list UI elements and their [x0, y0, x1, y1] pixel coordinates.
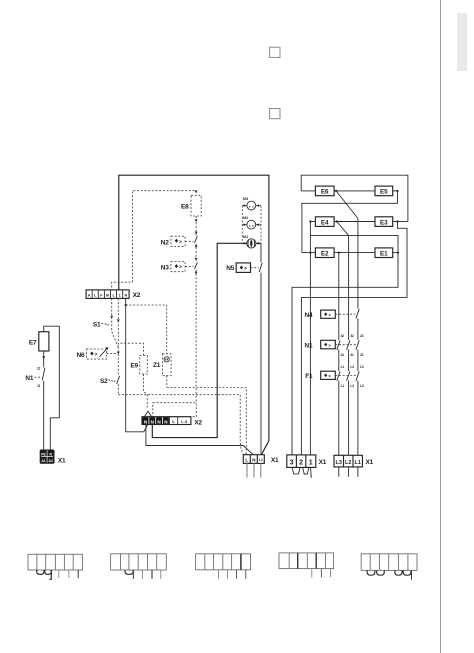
- jumper link group 2: [125, 570, 133, 574]
- svg-text:N5: N5: [226, 265, 234, 272]
- heater E3: [375, 217, 393, 227]
- pin under 1: [310, 467, 313, 477]
- arrow below N3 contact: [195, 272, 198, 275]
- wire E4 crossbar: [292, 235, 398, 455]
- heater E6: [315, 186, 334, 196]
- dashed enclosure over X2 lower: [153, 403, 197, 417]
- connector X1 (3-2-1): [287, 455, 316, 468]
- wire E7 top loop: [44, 326, 60, 449]
- sensor E8: [191, 195, 201, 216]
- pins under L3-L2-L1: [339, 467, 358, 477]
- arrow below N2 contact: [195, 245, 198, 248]
- dashed stubs M2: [242, 224, 261, 226]
- dashed link F1 to contacts: [335, 375, 356, 377]
- node tap: [125, 304, 127, 306]
- plug connector X1 (left): [40, 450, 55, 464]
- svg-text:L3: L3: [360, 365, 364, 369]
- svg-text:>: >: [244, 266, 247, 272]
- svg-text:>: >: [95, 352, 98, 358]
- heater E7: [39, 332, 49, 351]
- flow arrow: [42, 356, 45, 359]
- svg-text:42: 42: [341, 334, 345, 338]
- motor M3: [247, 201, 256, 210]
- svg-text:E9: E9: [130, 363, 138, 370]
- wire E2 to E1: [334, 252, 375, 254]
- checkbox placeholder 1: [270, 47, 280, 57]
- arrow into E8: [195, 190, 198, 193]
- wire M1 right drop to X1: [260, 243, 262, 454]
- arrow N6 to chain: [100, 349, 108, 357]
- thermostat N5: [236, 263, 250, 273]
- svg-text:L2: L2: [345, 460, 351, 466]
- svg-text:N2: N2: [161, 239, 169, 246]
- svg-text:L3: L3: [360, 384, 364, 388]
- svg-text:X1: X1: [366, 459, 374, 466]
- svg-text:22: 22: [360, 334, 364, 338]
- dashed link N4 to contact: [335, 313, 355, 315]
- dashed link N3: [185, 265, 193, 267]
- page edge vertical rule: [440, 0, 442, 653]
- svg-text:L-S: L-S: [181, 420, 187, 424]
- dashed link N5 to contact: [251, 267, 259, 269]
- contact blade N2: [195, 236, 198, 243]
- arrow above N2 contact: [195, 232, 198, 235]
- plug link under 2: [303, 467, 309, 474]
- dashed bus left of motors: [241, 206, 243, 244]
- wire E4 to E3: [334, 221, 375, 223]
- svg-text:L1: L1: [341, 384, 345, 388]
- dashed control enclosure: [112, 191, 195, 290]
- wire E6 left feed: [301, 190, 315, 192]
- svg-text:M3: M3: [243, 197, 248, 201]
- heater E4: [315, 217, 334, 227]
- wire E5 return run: [302, 191, 398, 253]
- checkbox placeholder 2: [270, 109, 280, 119]
- wire E6 to E5: [334, 190, 375, 192]
- svg-text:A: A: [88, 293, 91, 297]
- svg-text:21: 21: [360, 353, 364, 357]
- arrow on S1 branch: [110, 316, 113, 319]
- svg-text:X2: X2: [133, 292, 141, 299]
- terminal arrows M1: [244, 242, 260, 245]
- scrollbar thumb: [457, 13, 467, 71]
- svg-text:L1: L1: [341, 365, 345, 369]
- svg-text:S1: S1: [93, 321, 101, 328]
- thermostat N2: [171, 236, 185, 246]
- heater E1: [375, 248, 393, 258]
- caret into X2 lower cell1: [144, 411, 151, 416]
- Z1 bottom lead: [166, 376, 168, 388]
- plug link under 3: [292, 467, 300, 474]
- node E3 output: [396, 220, 398, 222]
- arrow above N3 contact: [195, 258, 198, 261]
- node E4 left: [309, 220, 311, 222]
- MAIN CONTROL BOX OUTLINE (solid enclosure, left): [119, 175, 269, 454]
- arrow below N6 junction: [117, 352, 120, 355]
- terminal block group 4: [279, 553, 334, 569]
- svg-text:L: L: [172, 419, 175, 424]
- wire diagonal E6 tap to phase L1 riser: [336, 191, 358, 219]
- overload relay F1: [321, 371, 336, 379]
- svg-text:>: >: [328, 343, 331, 348]
- svg-text:M1: M1: [243, 235, 248, 239]
- svg-text:E2: E2: [321, 250, 329, 257]
- node E2 output tap: [338, 252, 340, 254]
- svg-text:1: 1: [309, 460, 313, 467]
- svg-text:N4: N4: [304, 312, 312, 319]
- contact blade N3: [195, 262, 198, 269]
- terminal strip X2 upper: [86, 290, 129, 299]
- wire E7 bottom: [43, 351, 45, 450]
- dashed stubs M3: [242, 205, 261, 207]
- svg-text:41: 41: [341, 353, 345, 357]
- wire E2 left feed: [302, 252, 316, 254]
- svg-text:11: 11: [37, 384, 40, 388]
- lead wire group 2: [132, 570, 134, 579]
- svg-text:L1: L1: [355, 460, 361, 466]
- svg-text:N3: N3: [161, 265, 169, 272]
- connector X1 (L3-L2-L1): [334, 455, 362, 467]
- svg-text:N: N: [125, 293, 128, 297]
- switch S2 blade: [117, 376, 120, 384]
- heater loop top edge: [301, 175, 408, 221]
- svg-text:X1: X1: [271, 457, 279, 464]
- svg-text:>: >: [328, 313, 331, 318]
- terminal block group 2: [111, 554, 167, 570]
- svg-text:A2: A2: [49, 459, 53, 463]
- svg-text:>: >: [179, 239, 182, 245]
- svg-text:E3: E3: [380, 219, 388, 226]
- svg-text:X2: X2: [194, 419, 202, 426]
- fan motor M1: [247, 239, 256, 248]
- svg-text:L1: L1: [259, 458, 263, 462]
- wire X2 lower cell1 to X1-L: [146, 425, 253, 455]
- dashed sensor line (E8 down through N2/N3): [195, 216, 197, 403]
- E9 bottom lead: [144, 374, 148, 410]
- svg-text:N1: N1: [304, 342, 312, 349]
- svg-text:>: >: [328, 374, 331, 379]
- wire diagonal E4 tap to phase L2 riser: [337, 222, 349, 236]
- switch S2 callout: [109, 380, 116, 381]
- wire E4 left feed: [310, 221, 315, 223]
- svg-text:E5: E5: [380, 189, 388, 196]
- svg-text:PE: PE: [41, 452, 46, 456]
- wire phase riser from E2 tap (goes to L3): [338, 253, 340, 456]
- svg-text:>: >: [179, 265, 182, 271]
- svg-text:E6: E6: [321, 189, 329, 196]
- dashed link N2: [185, 240, 193, 242]
- heater E5: [375, 186, 393, 196]
- pins group 4: [312, 569, 331, 578]
- contact blades F1 row: [337, 371, 359, 381]
- wire E3 jog to lower loop: [301, 222, 407, 455]
- node E2 left: [309, 252, 311, 254]
- wire E4/E2 left riser to terminal 1: [309, 222, 311, 455]
- arrow on main chain upper: [117, 319, 120, 322]
- svg-text:E1: E1: [380, 250, 388, 257]
- wire phase riser from E6 tap (goes to L1): [357, 218, 359, 455]
- component Z1: [162, 354, 171, 376]
- wire E1 right: [393, 252, 398, 254]
- svg-text:1: 1: [119, 293, 121, 297]
- contact blade N4 on L1 riser: [356, 309, 359, 319]
- E9 top lead: [118, 343, 143, 355]
- dashed link N1 to contacts: [335, 344, 356, 346]
- pins group 3: [219, 570, 228, 579]
- svg-text:N1: N1: [25, 375, 33, 382]
- svg-text:N: N: [252, 457, 256, 463]
- svg-text:Z1: Z1: [153, 362, 161, 369]
- motor M2: [247, 220, 256, 229]
- wire X2-N drop (from upper strip to lower cell1): [126, 298, 148, 431]
- node E4 output tap: [336, 220, 338, 222]
- svg-text:X1: X1: [58, 457, 66, 464]
- dashed tap from X2-N line: [126, 305, 167, 354]
- pins group 2: [142, 570, 160, 579]
- terminal block group 5: [361, 554, 417, 571]
- svg-text:M2: M2: [243, 216, 248, 220]
- switch S1 callout: [102, 324, 110, 325]
- terminal arrows M3: [244, 204, 260, 207]
- dashed link N1 left: [34, 376, 41, 378]
- dashed drop from X2 cell5: [112, 298, 119, 347]
- svg-text:S2: S2: [100, 378, 108, 385]
- svg-text:31: 31: [350, 353, 354, 357]
- dashed drop from X2 cell6: [117, 298, 119, 394]
- dashed bus right of motors: [260, 206, 262, 244]
- wire phase riser from E4 tap (goes to L2): [348, 235, 350, 455]
- svg-text:E8: E8: [181, 203, 189, 210]
- node E6 output tap: [335, 190, 337, 192]
- svg-text:E4: E4: [321, 219, 329, 226]
- svg-text:L2: L2: [350, 365, 354, 369]
- wire E3 right: [393, 221, 408, 223]
- pins group 1: [59, 570, 69, 578]
- svg-text:F1: F1: [305, 373, 313, 380]
- svg-text:L3: L3: [336, 460, 342, 466]
- pins under L-N-L1: [247, 463, 261, 477]
- svg-text:12: 12: [37, 366, 41, 370]
- lead wire group 5: [411, 570, 413, 579]
- svg-text:M: M: [106, 293, 109, 297]
- svg-text:E7: E7: [29, 339, 37, 346]
- svg-text:N6: N6: [76, 352, 84, 359]
- svg-text:X1: X1: [319, 459, 327, 466]
- node E1 output: [397, 252, 399, 254]
- lead wire group 1: [49, 570, 51, 579]
- contactor coil N1: [321, 340, 336, 349]
- dashed run B (S2 chain to X1 L): [118, 395, 244, 455]
- svg-text:2: 2: [299, 460, 303, 467]
- terminal arrows M2: [244, 223, 260, 226]
- contact blade N1 (E7 circuit): [42, 368, 45, 381]
- dashed run A (Z1 to X1 N): [167, 388, 247, 455]
- svg-text:L2: L2: [350, 384, 354, 388]
- terminal strip X2 lower: [142, 417, 191, 425]
- wire E5 right: [393, 190, 398, 192]
- svg-text:A1: A1: [41, 459, 45, 463]
- contact blades N1 row: [337, 340, 359, 350]
- terminal block group 3: [196, 554, 251, 570]
- svg-text:3: 3: [290, 460, 294, 467]
- plug links group 5: [367, 570, 384, 575]
- thermostat N6: [86, 349, 106, 359]
- heater E2: [315, 248, 334, 258]
- contact blade N5: [259, 263, 262, 273]
- arrow below E8: [195, 219, 198, 222]
- node E5 output: [396, 190, 398, 192]
- inner enclosure around N5: [152, 243, 261, 437]
- jumper links group 1: [37, 570, 52, 574]
- terminal block group 1: [28, 554, 82, 570]
- svg-text:L: L: [245, 457, 248, 463]
- svg-text:32: 32: [350, 334, 354, 338]
- connector X1 (L-N-L1): [243, 455, 264, 464]
- thermostat N4: [321, 310, 336, 318]
- component E9: [140, 356, 148, 375]
- thermostat N3: [171, 262, 185, 272]
